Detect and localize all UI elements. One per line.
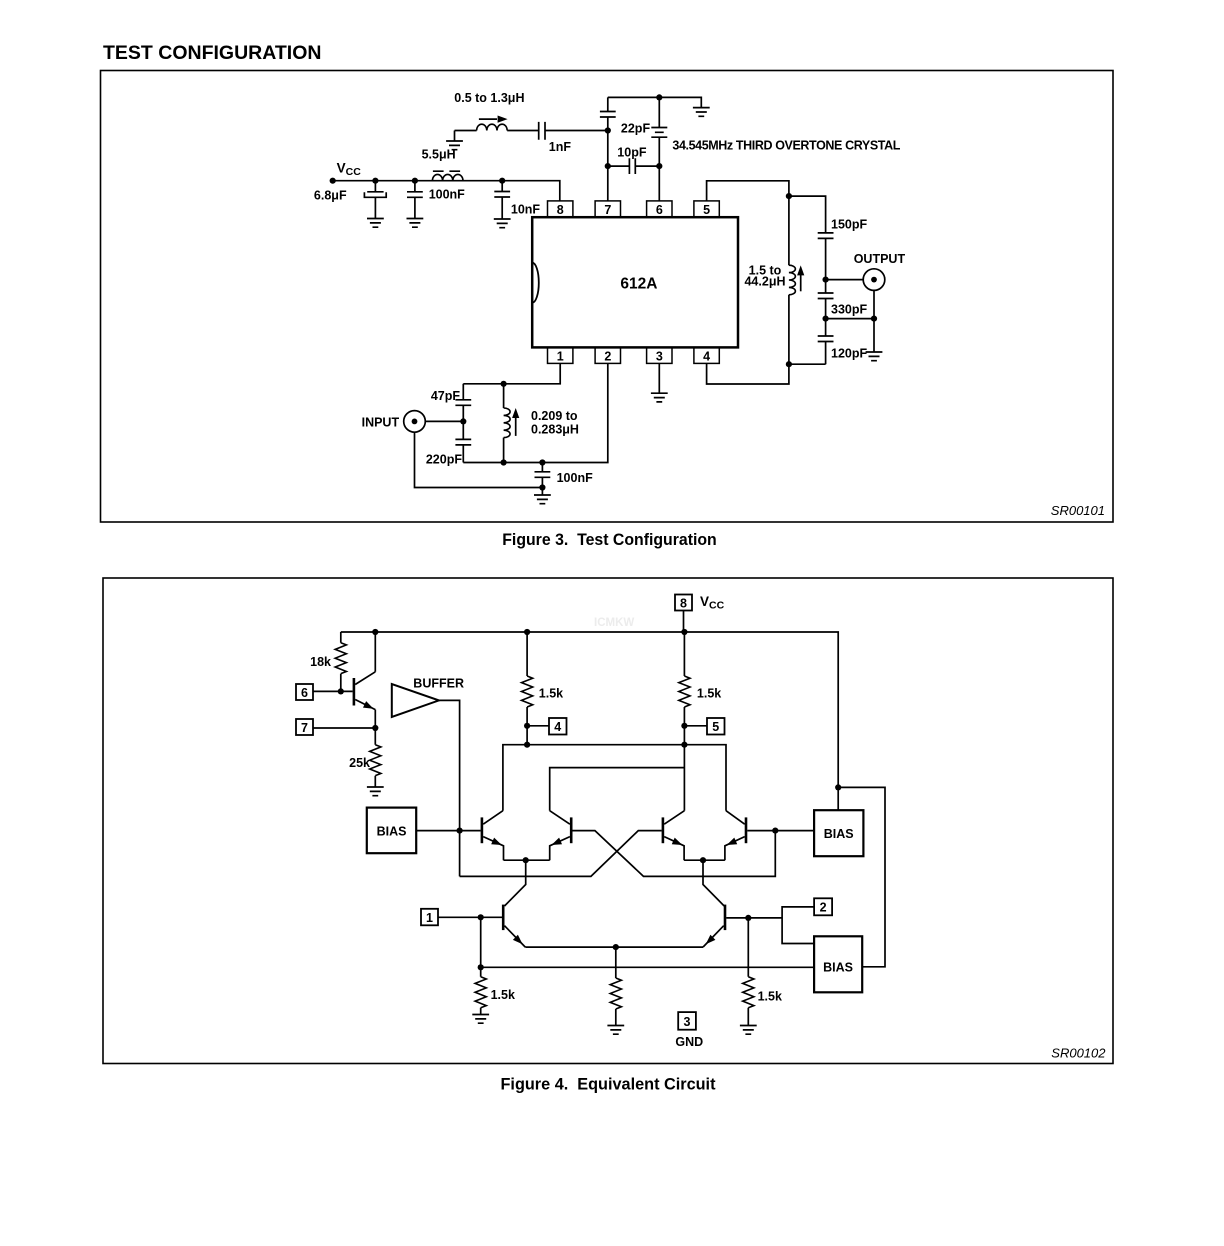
- pin 7 box: [296, 719, 313, 735]
- wire pin8 to rail: [683, 611, 685, 633]
- wire QR1 base cross-coupling: [460, 831, 662, 877]
- pin 4: [694, 347, 719, 363]
- wire QL2 base cross-coupling: [573, 831, 776, 877]
- wire BIAS feed to right drop: [838, 787, 885, 966]
- svg-text:1.5k: 1.5k: [697, 686, 721, 700]
- node pin7 / 1nF junction: [605, 127, 611, 133]
- ground below 10nF: [494, 219, 511, 228]
- capacitor 330pF: [825, 280, 827, 319]
- capacitor 1nF: [539, 122, 545, 140]
- wire QB2 collector: [703, 860, 724, 906]
- svg-text:6: 6: [656, 203, 663, 217]
- wire QR1 collector column: [683, 745, 685, 811]
- svg-text:4: 4: [703, 349, 710, 363]
- capacitor 100nF input: [539, 459, 545, 465]
- wire quad collector bus B: [550, 768, 685, 811]
- svg-text:BUFFER: BUFFER: [413, 677, 464, 691]
- ground top right: [693, 108, 710, 117]
- svg-text:VCC: VCC: [700, 594, 725, 612]
- resistor 1.5k (pin 4): [526, 632, 528, 745]
- svg-text:GND: GND: [675, 1035, 703, 1049]
- node BIAS feed: [835, 784, 841, 790]
- pin 3 box: [678, 1012, 696, 1030]
- pin 6 box: [296, 684, 313, 700]
- svg-text:TEST CONFIGURATION: TEST CONFIGURATION: [103, 42, 321, 64]
- node pin1/1.5k: [478, 914, 484, 920]
- node tank top: [786, 193, 792, 199]
- svg-text:0.5 to 1.3μH: 0.5 to 1.3μH: [454, 91, 524, 105]
- wire T1 emitter down: [374, 710, 376, 728]
- wire rail down to BIAS top: [837, 787, 839, 810]
- capacitor 10nF: [499, 178, 505, 184]
- BIAS box right lower: [814, 936, 862, 992]
- wire right pair emitters: [684, 859, 725, 861]
- node pin4 column / collector wire: [524, 742, 530, 748]
- ground left 1.5k: [472, 1015, 489, 1024]
- node top rail / crystal: [656, 94, 662, 100]
- capacitor 10pF: [605, 163, 611, 169]
- pin 2: [595, 347, 620, 363]
- capacitor 220pF: [462, 421, 464, 462]
- svg-text:Figure 4. Equivalent Circuit: Figure 4. Equivalent Circuit: [501, 1075, 716, 1093]
- node pin5: [681, 723, 687, 729]
- wire input shield: [415, 432, 543, 487]
- svg-text:1.5k: 1.5k: [758, 990, 782, 1004]
- svg-text:8: 8: [557, 203, 564, 217]
- svg-text:6: 6: [301, 686, 308, 700]
- wire VCC rail to pin 8: [333, 181, 560, 201]
- svg-text:220pF: 220pF: [426, 452, 462, 466]
- inductor 1.5 to 44.2uH (variable): [788, 196, 790, 364]
- wire pin7 to emitter node: [313, 727, 375, 729]
- IC 612A: [532, 217, 738, 347]
- inductor 0.5 to 1.3uH (variable): [477, 124, 508, 130]
- capacitor 47pF: [462, 384, 464, 422]
- pin 8: [548, 201, 573, 217]
- node input bottom: [501, 459, 507, 465]
- svg-text:INPUT: INPUT: [362, 415, 400, 429]
- svg-text:10pF: 10pF: [617, 146, 647, 160]
- svg-text:BIAS: BIAS: [377, 824, 407, 838]
- node input mid: [460, 418, 466, 424]
- pin 5 box: [707, 718, 725, 735]
- node rail/1.5k pin4: [524, 629, 530, 635]
- svg-text:SR00101: SR00101: [1051, 503, 1105, 518]
- svg-text:BIAS: BIAS: [824, 827, 854, 841]
- svg-text:Figure 3. Test Configuration: Figure 3. Test Configuration: [502, 531, 717, 549]
- resistor 1.5k (pin 5): [683, 632, 685, 745]
- node output tap: [823, 277, 829, 283]
- BIAS box left: [367, 808, 416, 854]
- svg-text:BIAS: BIAS: [823, 960, 853, 974]
- wire buffer output: [439, 700, 460, 876]
- capacitor 100nF: [412, 178, 418, 184]
- wire QR2 base to BIAS: [747, 830, 814, 832]
- pin 1: [548, 347, 573, 363]
- svg-text:25k: 25k: [349, 756, 370, 770]
- svg-text:2: 2: [820, 901, 827, 915]
- ground pin 3: [651, 393, 668, 402]
- node VCC terminal: [330, 178, 336, 184]
- node 100nF ground: [539, 484, 545, 490]
- svg-text:100nF: 100nF: [429, 187, 465, 201]
- svg-text:18k: 18k: [310, 655, 331, 669]
- ground below 100nF: [407, 219, 424, 228]
- resistor 18k: [340, 632, 342, 691]
- wire QB1 collector: [505, 860, 526, 906]
- wire left pair emitters: [504, 859, 550, 861]
- wire oscillator branch: [455, 130, 608, 132]
- ground right 1.5k: [740, 1026, 757, 1035]
- svg-text:100nF: 100nF: [557, 471, 593, 485]
- transistor QR2: [745, 817, 748, 843]
- wire pin1 to QB1 base: [438, 916, 502, 918]
- svg-text:0.283μH: 0.283μH: [531, 423, 579, 437]
- svg-text:0.209 to: 0.209 to: [531, 409, 578, 423]
- node pin4: [524, 723, 530, 729]
- transistor QB2: [724, 905, 727, 931]
- pin 1 box: [421, 909, 438, 926]
- pin 5: [694, 201, 719, 217]
- wire pin5: [684, 725, 707, 727]
- capacitor 120pF: [825, 319, 827, 365]
- svg-text:4: 4: [554, 720, 561, 734]
- svg-text:47pF: 47pF: [431, 389, 461, 403]
- node input top: [501, 381, 507, 387]
- resistor 25k: [374, 728, 376, 787]
- node pin5 column / collector wire: [681, 742, 687, 748]
- node rail left end: [478, 964, 484, 970]
- svg-text:7: 7: [301, 721, 308, 735]
- transistor QL1: [481, 817, 484, 843]
- svg-text:ICMKW: ICMKW: [594, 617, 634, 629]
- svg-text:5.5μH: 5.5μH: [422, 148, 456, 162]
- svg-text:8: 8: [680, 596, 687, 610]
- node right emitter: [700, 857, 706, 863]
- svg-text:22pF: 22pF: [621, 122, 651, 136]
- svg-text:1nF: 1nF: [549, 140, 572, 154]
- svg-text:SR00102: SR00102: [1051, 1046, 1106, 1061]
- inductor 0.209 to 0.283uH (variable): [503, 384, 505, 463]
- svg-text:1: 1: [557, 349, 564, 363]
- svg-text:1: 1: [426, 911, 433, 925]
- svg-text:1.5k: 1.5k: [491, 988, 515, 1002]
- wire T1 collector to rail: [374, 632, 376, 672]
- ground input network: [534, 495, 551, 504]
- wire tank bottom: [789, 363, 826, 365]
- pin 2 box: [814, 898, 832, 915]
- wire top rail to ground: [608, 97, 702, 107]
- wire bottom rail: [481, 966, 814, 968]
- crystal 34.545MHz: [651, 97, 667, 200]
- svg-text:150pF: 150pF: [831, 218, 867, 232]
- svg-text:3: 3: [684, 1015, 691, 1029]
- resistor 1.5k (left): [480, 917, 482, 1014]
- transistor T1 buffer input: [353, 678, 356, 706]
- figure 3 border frame: [101, 71, 1114, 523]
- wire pin6 to base: [313, 690, 353, 692]
- pin 8 box: [675, 595, 692, 611]
- node pin2/1.5k: [745, 915, 751, 921]
- svg-text:7: 7: [604, 203, 611, 217]
- svg-text:5: 5: [712, 720, 719, 734]
- svg-text:10nF: 10nF: [511, 203, 541, 217]
- wire VCC top rail: [341, 632, 838, 787]
- transistor QL2: [570, 817, 573, 843]
- svg-text:44.2μH: 44.2μH: [744, 275, 785, 289]
- wire pin 5 to tank: [707, 181, 789, 201]
- svg-text:5: 5: [703, 203, 710, 217]
- node QR2 base: [772, 828, 778, 834]
- transistor QB1: [502, 905, 505, 931]
- wire junction to output ground: [826, 318, 874, 320]
- ground below 6.8uF: [367, 219, 384, 228]
- wire pin4: [527, 725, 549, 727]
- capacitor 6.8uF: [372, 178, 378, 184]
- wire output shield down: [873, 290, 875, 352]
- wire pin 2 down: [463, 363, 608, 462]
- wire pin 4: [707, 363, 789, 384]
- capacitor 150pF: [818, 233, 834, 239]
- wire left BIAS to QL1 base: [416, 830, 480, 832]
- transistor QR1: [662, 817, 665, 843]
- capacitor pin7 top: [600, 112, 616, 118]
- svg-text:34.545MHz THIRD OVERTONE CRYST: 34.545MHz THIRD OVERTONE CRYSTAL: [672, 139, 900, 153]
- wire pin 1 down: [463, 363, 560, 383]
- pin 7: [595, 201, 620, 217]
- figure 4 border frame: [103, 578, 1113, 1064]
- node rail/T1 collector: [372, 629, 378, 635]
- pin 4 box: [549, 718, 567, 735]
- connector INPUT: [404, 411, 426, 433]
- wire to output connector: [826, 279, 863, 281]
- node 18k/base: [338, 688, 344, 694]
- ground top-left branch: [454, 131, 456, 142]
- wire pin 3 to ground: [658, 363, 660, 393]
- connector OUTPUT: [863, 269, 885, 291]
- node buffer/QL1 base: [457, 828, 463, 834]
- svg-text:OUTPUT: OUTPUT: [854, 252, 906, 266]
- svg-text:2: 2: [604, 349, 611, 363]
- wire lower pair emitters: [525, 946, 703, 948]
- svg-text:VCC: VCC: [337, 161, 362, 179]
- op-amp BUFFER: [392, 684, 439, 717]
- pin 6: [647, 201, 672, 217]
- node 330pF/120pF junction: [823, 316, 829, 322]
- pin 3: [647, 347, 672, 363]
- svg-text:3: 3: [656, 349, 663, 363]
- BIAS box right upper: [814, 810, 863, 856]
- svg-text:6.8μF: 6.8μF: [314, 189, 347, 203]
- ground below output: [866, 352, 883, 361]
- resistor middle: [615, 947, 617, 1025]
- ground below 25k: [367, 787, 384, 796]
- wire input to 47pF junction: [425, 420, 463, 422]
- svg-text:1.5k: 1.5k: [539, 686, 563, 700]
- inductor 5.5uH: [432, 174, 463, 180]
- ground middle resistor: [607, 1026, 624, 1035]
- node lower emitter: [613, 944, 619, 950]
- wire tank branch top: [789, 196, 826, 233]
- wire quad collector bus A: [503, 745, 726, 811]
- resistor 1.5k (right): [747, 918, 749, 1026]
- svg-text:330pF: 330pF: [831, 303, 867, 317]
- node rail/pin8: [681, 629, 687, 635]
- svg-text:612A: 612A: [620, 276, 657, 293]
- wire pin 7 column: [607, 97, 609, 200]
- wire pin2 to QB2 base: [726, 907, 814, 944]
- node left emitter: [523, 857, 529, 863]
- svg-text:120pF: 120pF: [831, 346, 867, 360]
